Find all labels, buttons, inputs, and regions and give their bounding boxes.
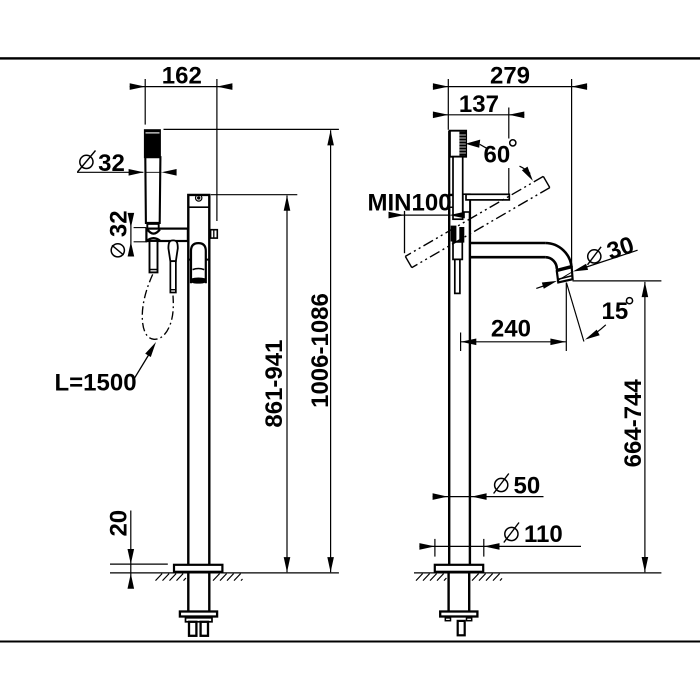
svg-text:664-744: 664-744 — [620, 379, 647, 468]
hose outlet connector — [168, 240, 177, 261]
flange step — [186, 618, 213, 622]
faucet column (side) — [449, 195, 470, 565]
top cap joint line — [188, 206, 209, 208]
floor line (side view) — [414, 572, 661, 574]
holder arm (side) — [466, 194, 509, 200]
svg-text:L=1500: L=1500 — [55, 370, 137, 397]
cradle chevron top — [147, 229, 160, 233]
lever handle (front) — [191, 243, 206, 283]
lower flange (side) — [440, 612, 477, 617]
spout nozzle (15 deg cut) — [557, 267, 573, 282]
svg-text:50: 50 — [514, 473, 541, 500]
hose connector (side) — [453, 242, 462, 260]
temperature knob (right side of body) — [211, 230, 218, 238]
hand shower head (black) — [144, 129, 161, 158]
dimension d32 lower (cradle), rotated label — [106, 210, 133, 256]
hose outlet tube — [170, 261, 176, 292]
hand shower handle — [145, 157, 160, 223]
svg-text:1006-1086: 1006-1086 — [307, 293, 334, 408]
hose tube (side) — [455, 259, 460, 293]
inlet pipe 1 — [189, 622, 196, 636]
floor hatching (left view) — [156, 574, 243, 581]
svg-text:137: 137 — [459, 91, 499, 118]
dimension 15 degrees — [565, 283, 567, 352]
hand shower head (side) — [450, 131, 466, 157]
svg-text:110: 110 — [524, 521, 563, 548]
dimension 861-941 — [211, 194, 297, 196]
below-floor pipe (front) — [187, 572, 189, 611]
floor line (left view) — [110, 572, 339, 574]
inlet stem (side) — [458, 621, 465, 635]
spout outer bend — [545, 243, 571, 268]
shower connector at cradle — [147, 224, 158, 229]
phantom hand shower at 60deg — [405, 176, 550, 267]
holder arm collar — [463, 194, 470, 212]
cradle holder bar — [146, 229, 188, 241]
svg-text:60: 60 — [484, 142, 511, 169]
below-floor pipe (side) — [447, 572, 449, 611]
spout bend end joint — [556, 266, 571, 270]
svg-text:20: 20 — [105, 510, 132, 537]
dimension 20 (plate height) — [105, 510, 132, 537]
svg-text:861-941: 861-941 — [261, 340, 288, 428]
dimension 279 — [433, 86, 587, 88]
dimension 664-744 — [573, 280, 662, 282]
svg-text:240: 240 — [491, 315, 531, 342]
dimension d110 — [419, 545, 581, 547]
dimension 240 — [461, 341, 566, 343]
base plate (side) — [435, 565, 483, 572]
spout top edge — [470, 242, 545, 245]
top cap screw — [196, 195, 202, 201]
flange nubs — [445, 618, 450, 621]
inlet pipe 2 — [201, 622, 208, 636]
dimension 137 — [433, 114, 524, 116]
spout bottom edge — [470, 256, 545, 259]
hand shower handle (side) — [453, 157, 463, 220]
dimension 1006-1086 — [164, 128, 339, 130]
bottom border line — [0, 641, 700, 643]
svg-text:279: 279 — [490, 62, 530, 89]
cradle chevron bottom — [147, 238, 161, 241]
dimension 162 — [130, 86, 233, 88]
base plate (front) — [174, 565, 222, 572]
dimension d30 (spout) — [587, 250, 638, 267]
svg-text:MIN100: MIN100 — [368, 190, 452, 217]
floor hatching (side view) — [416, 574, 502, 581]
dimension d32 upper (hand shower) — [80, 155, 93, 168]
dimension d50 — [433, 496, 544, 498]
body joint line at lever — [188, 259, 191, 261]
spout inner bend — [545, 257, 557, 269]
back profile line — [448, 131, 450, 195]
lower flange (front) — [180, 612, 217, 617]
top border line — [0, 57, 700, 59]
svg-text:15: 15 — [602, 298, 629, 325]
flexible hose loop (phantom line) — [142, 274, 173, 339]
faucet column (front) — [188, 195, 209, 565]
cradle bracket marks (side) — [451, 226, 457, 242]
svg-text:162: 162 — [162, 62, 202, 89]
shower hose upper stub — [150, 241, 158, 272]
top cap joint (side) — [449, 206, 470, 208]
